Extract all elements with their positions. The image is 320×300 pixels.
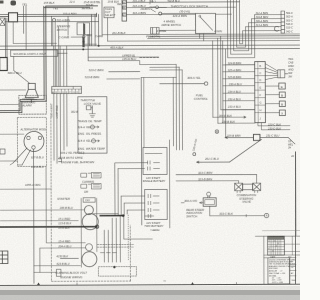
svg-text:LOCK VALVE: LOCK VALVE	[84, 102, 101, 106]
svg-text:324-B BRN: 324-B BRN	[228, 61, 242, 65]
heavy feeder wire pair	[44, 6, 46, 101]
battery box two	[145, 189, 168, 219]
svg-text:SWITCH: SWITCH	[186, 214, 198, 218]
svg-text:A: A	[123, 0, 125, 4]
svg-text:300-A VIO: 300-A VIO	[184, 199, 198, 203]
battery box single	[143, 147, 167, 174]
svg-text:3H: 3H	[288, 147, 291, 150]
svg-text:CAMB: CAMB	[95, 34, 103, 38]
svg-text:502-B BLU: 502-B BLU	[167, 0, 179, 3]
svg-text:123-B BLK: 123-B BLK	[58, 221, 71, 225]
border tick marks	[37, 282, 194, 285]
right info column rules	[290, 258, 296, 284]
faint rule above title block	[262, 230, 300, 232]
nested wire staircase 5	[239, 0, 281, 44]
wire 323-C BRN	[176, 174, 257, 183]
wire C-CAMB to switch	[71, 36, 82, 38]
alternator terminal 2	[38, 136, 41, 139]
svg-text:STARTER: STARTER	[57, 197, 70, 201]
svg-text:206-B BLU: 206-B BLU	[59, 206, 73, 210]
revision grid rows	[268, 239, 285, 252]
svg-text:OLD: OLD	[149, 5, 155, 9]
dashed cummins enclosure left edge	[50, 117, 53, 281]
wire left edge to horn	[0, 89, 26, 91]
alternator body	[24, 131, 44, 151]
connector stub pair mid left	[10, 163, 22, 165]
svg-text:135-W BLU: 135-W BLU	[122, 57, 136, 61]
long diagonal wire to transmission	[229, 139, 261, 162]
switch blade diagonal	[200, 17, 213, 31]
wire 309-A to terminal	[160, 83, 204, 85]
svg-text:CAV: CAV	[85, 199, 90, 202]
svg-text:455-A BLK: 455-A BLK	[110, 46, 124, 50]
cut-off terminal symbol	[10, 0, 16, 5]
svg-text:502-C: 502-C	[286, 12, 293, 15]
wire 201-C with arrow	[197, 161, 230, 163]
sheet right border	[295, 152, 297, 284]
box TRAN OUT SELECT	[104, 7, 114, 18]
wire pin B to right	[127, 6, 236, 8]
wire vertical x13.6	[13, 22, 56, 43]
terminal circle fuel	[204, 82, 207, 85]
bus 455-A y45.5	[0, 45, 300, 46]
wire pedestal to switch	[159, 29, 195, 31]
CAV box	[83, 198, 95, 203]
svg-text:4230 BLK: 4230 BLK	[56, 254, 68, 258]
solenoid wire to bundle	[93, 213, 118, 215]
wire vertical x55.6	[54, 22, 56, 89]
wire vertical x59	[58, 26, 60, 88]
wire vertical x33 long	[32, 149, 34, 283]
wire verticals right-center	[213, 36, 221, 123]
title block left outer vertical	[263, 236, 265, 284]
svg-text:201-A BLK: 201-A BLK	[131, 0, 145, 3]
title block top rule	[255, 235, 300, 237]
svg-text:ALTERNATOR MODL: ALTERNATOR MODL	[19, 127, 47, 131]
wire 230-D BLK from strip bottom	[261, 123, 290, 130]
wire vertical x68.5	[67, 16, 69, 35]
svg-text:CONTROL: CONTROL	[194, 97, 209, 101]
relay module box X	[279, 110, 285, 116]
svg-text:4 WIN: 4 WIN	[214, 29, 223, 33]
center wire bundle verticals	[115, 163, 127, 216]
connector pair row 1	[81, 172, 101, 178]
rear steer switch body	[203, 198, 216, 207]
svg-text:B: B	[123, 6, 125, 10]
bus y49 with label	[0, 49, 300, 50]
right header strip rules	[284, 236, 300, 255]
wire 15-1	[0, 220, 78, 222]
sender circle 1	[90, 125, 94, 129]
svg-text:X: X	[281, 112, 283, 116]
svg-text:103-A BRN: 103-A BRN	[63, 12, 78, 16]
wire pin A to right	[126, 1, 239, 3]
wire 220-C BLK from strip bottom	[258, 123, 290, 126]
revision header bar	[268, 237, 283, 240]
starter solenoid circle	[84, 205, 93, 214]
svg-text:232-A BLU: 232-A BLU	[227, 97, 241, 101]
svg-text:304-B BRN: 304-B BRN	[256, 16, 269, 19]
svg-text:B: B	[281, 103, 283, 107]
wire to module E	[265, 85, 278, 87]
wire 300-A arrow	[181, 202, 203, 204]
wire 1055-A	[0, 188, 51, 190]
svg-text:SINGLE BATTERY: SINGLE BATTERY	[143, 179, 166, 183]
heavy feeder corner to left edge	[0, 111, 22, 113]
svg-text:DRIVE SWITCH: DRIVE SWITCH	[162, 23, 182, 27]
connector box bottom left	[56, 269, 61, 276]
svg-text:22-A: 22-A	[68, 1, 75, 4]
svg-text:502-A: 502-A	[286, 16, 293, 19]
svg-text:200-B WHT-0 SPIKE: 200-B WHT-0 SPIKE	[57, 156, 83, 160]
wire to module B1	[265, 94, 279, 96]
svg-text:2000: 2000	[291, 280, 295, 282]
wire corner into bus y41	[107, 18, 109, 41]
svg-text:543-C: 543-C	[286, 23, 293, 26]
svg-text:JA: JA	[291, 155, 294, 158]
bottom scan margin band	[0, 286, 300, 291]
dashed boundary warning alarm box	[19, 95, 47, 114]
junction dot bundle	[122, 214, 125, 217]
wire horizontal y21	[6, 20, 99, 22]
svg-text:325-B BRN: 325-B BRN	[227, 133, 241, 137]
wire 4230	[60, 257, 78, 259]
alternator lead down	[22, 150, 31, 165]
svg-text:B: B	[259, 64, 261, 68]
svg-text:313-A BRN: 313-A BRN	[256, 24, 269, 27]
top edge tick marks	[150, 0, 153, 4]
alternator dashed enclosure	[17, 117, 46, 166]
connector bracket top right	[281, 11, 285, 33]
svg-text:309-A YEL: 309-A YEL	[187, 76, 201, 80]
svg-text:SWITCH: SWITCH	[57, 28, 68, 32]
valve symbol	[86, 106, 95, 118]
nested wire staircase 3	[233, 0, 281, 51]
svg-text:ALARM: ALARM	[21, 103, 32, 107]
svg-text:233-A BLU: 233-A BLU	[227, 105, 241, 109]
svg-text:G: G	[259, 101, 261, 105]
panel inner vertical	[143, 78, 145, 147]
svg-text:600-A WHT: 600-A WHT	[50, 103, 54, 117]
dotted boundary vertical	[127, 215, 129, 261]
bundle feed corner wires	[115, 163, 148, 210]
svg-text:G: G	[73, 92, 75, 94]
svg-text:155 BLK: 155 BLK	[43, 1, 55, 5]
junction dot bus	[98, 45, 100, 47]
svg-text:15-1-RED: 15-1-RED	[58, 217, 70, 221]
svg-text:323-B BRN: 323-B BRN	[198, 177, 213, 181]
tolerance notes box	[268, 258, 290, 284]
heavy battery cable	[0, 226, 96, 228]
wires switch to bus	[84, 35, 89, 61]
wire pin7	[221, 109, 255, 111]
fan wires strip to sub bracket	[265, 64, 278, 80]
junction dot battery cable	[95, 225, 98, 228]
component box at left edge lower	[0, 251, 8, 264]
terminal circle 502-A	[53, 19, 56, 22]
svg-text:E: E	[259, 86, 261, 90]
svg-text:234-A BLU: 234-A BLU	[227, 90, 241, 94]
bus y60.5 stepping	[88, 61, 176, 65]
wire to module B2	[265, 103, 279, 105]
wire 323-B BRN	[176, 181, 239, 184]
connector pair row 2	[81, 183, 101, 189]
svg-text:(30-2-AL): (30-2-AL)	[180, 10, 191, 13]
dashed wire row 2	[97, 246, 133, 248]
svg-text:VALVE: VALVE	[242, 200, 251, 204]
nested wire staircase 1	[227, 0, 281, 58]
wire vertical pair left margin	[5, 18, 7, 58]
svg-text:3W: 3W	[288, 76, 292, 79]
engine sensor group box	[78, 97, 107, 154]
battery box single inner wires	[145, 153, 162, 170]
svg-text:312-A BRN: 312-A BRN	[256, 12, 269, 15]
revision grid columns	[270, 239, 281, 255]
bus y38.5	[148, 37, 300, 40]
svg-text:Z: Z	[123, 13, 125, 17]
bus 201-B y34.5	[102, 33, 299, 36]
bus end hook	[96, 13, 98, 16]
alternator lead down-left	[13, 148, 27, 163]
heavy feeder top corner	[44, 6, 98, 8]
svg-text:523-B BRN: 523-B BRN	[85, 75, 101, 79]
battery box two inner wires	[145, 194, 160, 217]
wire 325-B BRN with connector	[225, 136, 254, 138]
svg-text:333-C BLK: 333-C BLK	[219, 212, 233, 216]
bus y41	[108, 39, 300, 42]
bus y57 with label	[88, 56, 158, 58]
wire into alternator	[0, 133, 24, 135]
main cab connector strip	[255, 62, 266, 123]
wire into alarm box	[0, 103, 19, 105]
wire 423-B	[34, 265, 80, 267]
svg-text:204-A BLU: 204-A BLU	[57, 244, 71, 248]
wire to horn	[14, 56, 30, 83]
terminal circle throttle	[159, 12, 162, 15]
svg-text:323-C BRN: 323-C BRN	[198, 171, 213, 175]
svg-text:ENG. WATER TEMP: ENG. WATER TEMP	[78, 147, 105, 151]
svg-text:4 WHEEL: 4 WHEEL	[164, 20, 176, 24]
dashed inner box 2	[98, 267, 136, 277]
svg-text:513-C: 513-C	[286, 27, 293, 30]
wire vertical pair x52	[51, 16, 53, 46]
terminal circle 310	[193, 153, 196, 156]
cut-off component corner mark	[0, 1, 3, 4]
svg-text:ENGINE WIRING: ENGINE WIRING	[60, 275, 83, 279]
wire corner to connector at bottom	[34, 271, 56, 273]
svg-text:15-B BLK: 15-B BLK	[107, 0, 119, 4]
cut-off box with X at left edge	[0, 18, 5, 26]
svg-text:120-B BLU: 120-B BLU	[31, 165, 44, 169]
wire verticals below strip	[54, 93, 67, 163]
wire 15-A RED	[46, 166, 85, 243]
sender circle 2	[91, 139, 95, 143]
pedestal component box	[151, 27, 160, 34]
wires 4wd switch to buses	[200, 34, 204, 41]
svg-text:SOURCE HORN A WHT: SOURCE HORN A WHT	[13, 52, 47, 56]
wire to module X	[265, 112, 279, 114]
switch box 4WD	[196, 13, 216, 33]
valve feet	[237, 191, 258, 193]
second throttle terminal circle	[156, 6, 159, 9]
dashed cummins enclosure bottom	[51, 225, 130, 281]
relay module box E	[279, 83, 286, 89]
rear steer switch stem lamp	[207, 192, 211, 196]
svg-text:525-B BRN: 525-B BRN	[228, 75, 242, 79]
svg-text:230-A BLU: 230-A BLU	[228, 82, 242, 86]
svg-text:THROTTLE LOCK SWITCH: THROTTLE LOCK SWITCH	[170, 4, 208, 8]
verticals center into dashed boxes	[104, 216, 120, 263]
panel top edge	[141, 76, 176, 78]
corner wire right at y239	[124, 215, 153, 239]
svg-text:C-CAMB: C-CAMB	[59, 35, 70, 39]
dashed wire row 1	[97, 243, 133, 245]
junction tick	[245, 214, 247, 216]
svg-text:325-A BRN: 325-A BRN	[228, 68, 242, 72]
terminal circle crossed	[215, 130, 219, 134]
svg-text:SPECIFIED: SPECIFIED	[269, 268, 279, 270]
bus stubs into panel corners	[150, 67, 183, 70]
svg-text:YEL: YEL	[53, 6, 59, 10]
bus corner verticals to panel	[176, 64, 182, 149]
wire 304-B BLK	[213, 116, 246, 118]
svg-text:302-B: 302-B	[71, 110, 78, 114]
svg-text:201-C BLU: 201-C BLU	[204, 157, 220, 161]
wire switch down to 333-C	[210, 206, 265, 216]
wire 206-B	[0, 209, 84, 211]
svg-text:D: D	[259, 78, 261, 82]
dashed bus segment	[140, 57, 159, 59]
alternator terminal 3	[32, 146, 35, 149]
C clamp mark	[274, 26, 278, 31]
bus y36	[150, 35, 300, 38]
motor terminal circle	[86, 244, 93, 251]
wire OLD stub	[152, 7, 167, 12]
svg-text:ENGINE FUEL SH/FROWN: ENGINE FUEL SH/FROWN	[61, 160, 94, 164]
inline connector box on bus	[9, 13, 18, 22]
svg-text:C: C	[259, 71, 261, 75]
wire to 231-C	[260, 137, 295, 144]
svg-text:324-A BRN: 324-A BRN	[173, 14, 188, 18]
svg-text:TWO BATTERY: TWO BATTERY	[144, 224, 163, 228]
wire vertical x88.6	[85, 37, 97, 44]
wire pin Z to right	[127, 13, 232, 15]
svg-text:324-A YEL: 324-A YEL	[77, 125, 91, 129]
starter housing verticals	[81, 198, 97, 267]
engine bulkhead connector strip	[52, 86, 82, 93]
feeder vertical to strip pins A	[222, 41, 224, 123]
nested wire staircase 2	[230, 0, 281, 54]
svg-text:314-A YEL: 314-A YEL	[77, 139, 91, 143]
wire vertical pair from YEL A	[23, 6, 26, 51]
heavy feeder step corner	[20, 99, 46, 112]
svg-text:220-C BLK: 220-C BLK	[267, 122, 281, 126]
panel right verticals	[169, 77, 174, 228]
relay module box B1	[279, 92, 285, 98]
label box SOURCE HORN A WHT	[11, 50, 58, 57]
wire throttle to switch	[162, 12, 196, 14]
ground terminal A	[264, 213, 268, 217]
junction dot bus2	[82, 48, 84, 50]
wire 523-B	[107, 78, 140, 80]
wire 230-B BLK	[218, 122, 255, 124]
svg-text:A: A	[266, 214, 268, 218]
svg-text:m. mawr: m. mawr	[150, 230, 158, 232]
combination steering valve	[235, 183, 243, 191]
svg-text:B: B	[281, 94, 283, 98]
nested wire staircase 4	[236, 0, 281, 47]
svg-text:H: H	[259, 108, 261, 112]
date row band	[264, 255, 301, 258]
connector stub right	[59, 159, 62, 162]
revision table frame	[268, 236, 285, 255]
wire verticals into strip from buses	[54, 46, 67, 87]
svg-text:(309-2 YEL PB/FREJ): (309-2 YEL PB/FREJ)	[60, 152, 85, 155]
svg-text:2 WIRE: 2 WIRE	[156, 29, 167, 33]
svg-text:YEL: YEL	[22, 3, 28, 7]
svg-text:TRANS OIL TEMP: TRANS OIL TEMP	[77, 119, 101, 123]
sheet bottom border line	[0, 284, 300, 285]
svg-text:SENDER: SENDER	[81, 6, 93, 10]
wire stub left y160	[0, 160, 17, 162]
horn speaker	[25, 83, 38, 102]
svg-text:627-B BLU: 627-B BLU	[31, 156, 44, 160]
svg-text:503-C: 503-C	[286, 19, 293, 22]
svg-text:.XXXX ± .0005: .XXXX ± .0005	[271, 282, 283, 284]
steering switch box	[77, 23, 90, 46]
svg-text:231-C BLU: 231-C BLU	[265, 133, 279, 137]
component box at left edge	[0, 57, 7, 70]
svg-text:LAMP ROD: LAMP ROD	[56, 105, 59, 118]
svg-text:423-B BLU: 423-B BLU	[56, 262, 69, 266]
svg-text:309-A BRN: 309-A BRN	[256, 20, 269, 23]
svg-text:ENG. OIL PRESS.: ENG. OIL PRESS.	[78, 132, 102, 136]
alternator terminal 1	[27, 136, 30, 139]
svg-text:CAMB: CAMB	[84, 33, 92, 37]
svg-text:E: E	[281, 85, 283, 89]
svg-text:CUMMINS: CUMMINS	[82, 181, 94, 184]
small box at left edge mid	[0, 149, 5, 154]
heavy stub into bundle	[100, 215, 123, 217]
wire 523-C	[109, 71, 140, 73]
wire 204-A	[40, 248, 86, 273]
wire bus pair horizontal upper-left	[0, 14, 97, 16]
wire pin1 from left	[225, 49, 255, 138]
svg-text:1055-A ORG: 1055-A ORG	[25, 183, 40, 187]
starter motor circle	[82, 252, 97, 267]
panel left edge long	[140, 78, 143, 225]
strip pin stub wires	[223, 65, 255, 110]
right edge vertical above title	[295, 151, 297, 235]
wire verticals center bundle upper	[91, 0, 102, 46]
svg-text:310-A BRN: 310-A BRN	[133, 11, 147, 15]
inline connector 325-B	[253, 134, 260, 140]
svg-text:542-C: 542-C	[286, 30, 293, 33]
junction dot under switch	[82, 41, 84, 43]
connector bracket pins A B Z	[122, 0, 127, 21]
relay module box B2	[279, 101, 285, 107]
svg-text:BLU: BLU	[150, 0, 157, 4]
svg-text:SELECT: SELECT	[105, 13, 116, 17]
svg-text:523-C BRN: 523-C BRN	[89, 68, 105, 72]
small marks row	[100, 252, 116, 254]
svg-text:230-B BLK: 230-B BLK	[221, 120, 235, 124]
svg-text:230-D BLK: 230-D BLK	[267, 126, 281, 130]
starter body circle	[82, 214, 98, 230]
sub connector bracket	[278, 70, 288, 78]
svg-text:UPPER BL: UPPER BL	[122, 54, 136, 58]
junction dot inner	[113, 266, 115, 268]
